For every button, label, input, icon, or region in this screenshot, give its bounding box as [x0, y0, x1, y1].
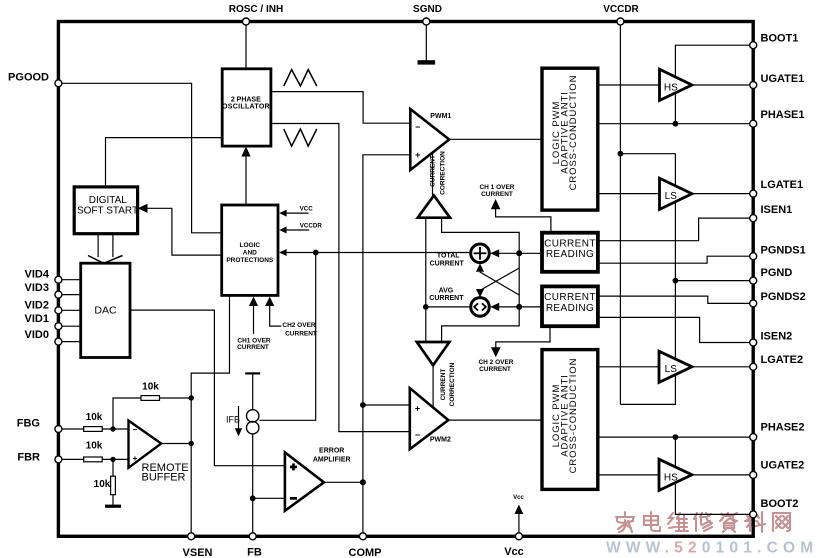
svg-text:Vcc: Vcc	[504, 546, 524, 558]
svg-text:AND: AND	[243, 250, 257, 257]
svg-text:SGND: SGND	[413, 4, 442, 15]
svg-text:SOFT START: SOFT START	[77, 205, 138, 216]
svg-text:VID3: VID3	[25, 282, 49, 294]
svg-text:−: −	[415, 430, 420, 440]
svg-text:READING: READING	[546, 249, 594, 260]
svg-text:−: −	[133, 425, 138, 434]
svg-text:UGATE2: UGATE2	[761, 460, 805, 472]
svg-text:CROSS-CONDUCTION: CROSS-CONDUCTION	[568, 358, 579, 474]
svg-text:FB: FB	[247, 547, 262, 558]
svg-text:AMPLIFIER: AMPLIFIER	[313, 456, 351, 463]
svg-text:CURRENT: CURRENT	[481, 191, 513, 198]
svg-text:+: +	[415, 150, 420, 160]
svg-text:2 PHASE: 2 PHASE	[231, 97, 261, 104]
svg-text:PWM2: PWM2	[430, 437, 451, 444]
svg-text:VCCDR: VCCDR	[300, 222, 323, 229]
svg-text:UGATE1: UGATE1	[761, 73, 805, 85]
svg-text:WWW.520101.COM: WWW.520101.COM	[606, 540, 818, 557]
svg-text:Vcc: Vcc	[513, 495, 524, 501]
svg-text:CURRENT: CURRENT	[430, 261, 465, 268]
svg-text:HS: HS	[664, 472, 678, 483]
svg-text:CH2 OVER: CH2 OVER	[282, 322, 316, 329]
svg-text:CURRENT: CURRENT	[237, 344, 269, 351]
svg-text:LGATE2: LGATE2	[761, 354, 804, 366]
svg-text:FBG: FBG	[17, 418, 40, 430]
svg-text:PGOOD: PGOOD	[8, 71, 49, 83]
svg-text:VCC: VCC	[300, 205, 314, 212]
svg-text:HS: HS	[664, 82, 678, 93]
svg-text:TOTAL: TOTAL	[437, 253, 460, 260]
svg-text:OSCILLATOR: OSCILLATOR	[222, 104, 270, 111]
svg-text:VID2: VID2	[25, 300, 49, 312]
svg-text:ISEN2: ISEN2	[761, 331, 793, 343]
svg-text:CURRENT: CURRENT	[430, 155, 437, 187]
svg-text:COMP: COMP	[349, 547, 382, 558]
svg-text:CH 2 OVER: CH 2 OVER	[478, 359, 513, 366]
svg-text:10k: 10k	[94, 479, 111, 490]
svg-text:ROSC / INH: ROSC / INH	[229, 4, 283, 15]
svg-text:ISEN1: ISEN1	[761, 204, 793, 216]
svg-text:VID1: VID1	[25, 313, 49, 325]
svg-text:−: −	[415, 122, 420, 132]
svg-text:PHASE2: PHASE2	[761, 422, 805, 434]
svg-text:BOOT1: BOOT1	[761, 33, 799, 45]
svg-text:CURRENT: CURRENT	[544, 239, 596, 250]
svg-text:+: +	[415, 403, 420, 413]
svg-text:PGNDS2: PGNDS2	[761, 291, 806, 303]
svg-text:10k: 10k	[86, 412, 103, 423]
svg-text:CURRENT: CURRENT	[429, 295, 464, 302]
svg-text:LS: LS	[665, 191, 678, 202]
svg-text:PHASE1: PHASE1	[761, 109, 805, 121]
svg-text:BOOT2: BOOT2	[761, 498, 799, 510]
svg-text:10k: 10k	[86, 440, 103, 451]
svg-text:DAC: DAC	[94, 305, 117, 317]
svg-text:DIGITAL: DIGITAL	[89, 195, 128, 206]
svg-text:IFB: IFB	[226, 415, 240, 425]
svg-text:PROTECTIONS: PROTECTIONS	[226, 257, 274, 264]
svg-text:CURRENT: CURRENT	[440, 369, 447, 401]
svg-text:ERROR: ERROR	[319, 447, 344, 454]
svg-text:LS: LS	[665, 364, 678, 375]
svg-text:PGND: PGND	[761, 267, 793, 279]
svg-text:CURRENT: CURRENT	[544, 292, 596, 303]
svg-text:AVG: AVG	[439, 287, 454, 294]
svg-text:+: +	[133, 454, 138, 463]
svg-text:CURRENT: CURRENT	[479, 366, 511, 373]
svg-text:FBR: FBR	[17, 452, 40, 464]
svg-text:CROSS-CONDUCTION: CROSS-CONDUCTION	[568, 75, 579, 191]
svg-text:VSEN: VSEN	[183, 547, 213, 558]
svg-text:VID4: VID4	[25, 269, 50, 281]
svg-text:VCCDR: VCCDR	[603, 4, 639, 15]
svg-text:CURRENT: CURRENT	[285, 331, 317, 338]
svg-text:LGATE1: LGATE1	[761, 179, 804, 191]
svg-text:10k: 10k	[142, 381, 159, 392]
svg-text:LOGIC: LOGIC	[240, 242, 261, 249]
svg-text:BUFFER: BUFFER	[142, 472, 186, 484]
svg-text:CORRECTION: CORRECTION	[440, 151, 447, 195]
svg-text:VID0: VID0	[25, 329, 49, 341]
svg-text:PGNDS1: PGNDS1	[761, 245, 806, 257]
svg-text:READING: READING	[546, 303, 594, 314]
svg-text:CORRECTION: CORRECTION	[449, 362, 456, 406]
svg-text:PWM1: PWM1	[430, 113, 451, 120]
